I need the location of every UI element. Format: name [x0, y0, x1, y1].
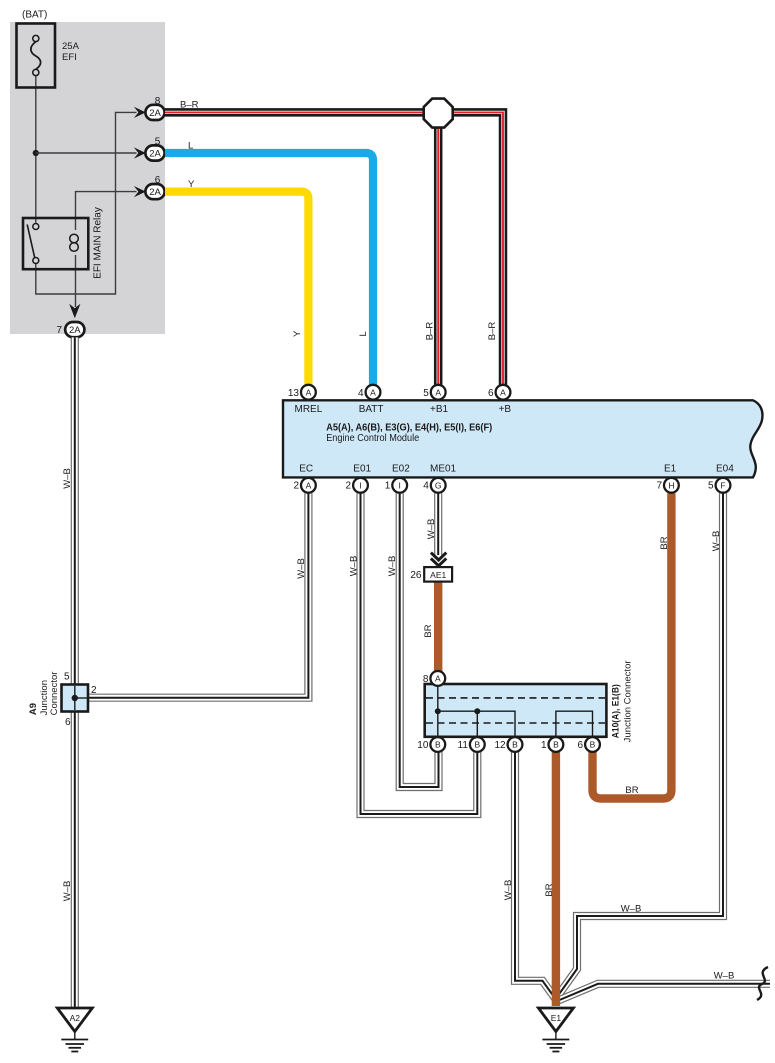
svg-text:BR: BR: [544, 883, 555, 896]
junction pin 11 B: [470, 737, 485, 752]
svg-text:B: B: [435, 740, 441, 750]
svg-text:A9: A9: [28, 703, 39, 715]
dashed internal lines: [426, 697, 605, 699]
svg-text:B–R: B–R: [425, 322, 436, 341]
svg-text:6: 6: [155, 175, 161, 186]
internal bus wiring: [437, 686, 439, 744]
ECM pin 5 A +B1: [431, 385, 446, 400]
svg-text:26: 26: [410, 570, 422, 581]
ECM pin 1 I E02: [392, 478, 407, 493]
svg-text:B: B: [512, 740, 518, 750]
svg-text:I: I: [399, 481, 401, 491]
arrow into pin 8: [134, 107, 146, 118]
fuse 25A EFI box: [17, 24, 56, 88]
svg-text:EC: EC: [299, 464, 313, 475]
svg-text:EFI MAIN Relay: EFI MAIN Relay: [93, 207, 104, 279]
svg-text:2A: 2A: [149, 187, 161, 198]
ECM pin 4 A BATT: [366, 385, 381, 400]
svg-text:L: L: [188, 140, 193, 151]
node dots in junction connector: [435, 708, 441, 714]
wire: to pin 5 (L): [36, 152, 137, 154]
svg-text:Connector: Connector: [49, 672, 60, 716]
svg-text:W–B: W–B: [503, 880, 514, 901]
svg-text:2: 2: [293, 480, 299, 491]
svg-text:BR: BR: [659, 536, 670, 549]
relay switch contacts: [33, 224, 39, 230]
wire BR brown junction pin1 to E1 ground: [552, 752, 560, 1006]
svg-text:F: F: [720, 481, 725, 491]
svg-text:5: 5: [64, 672, 70, 683]
junction pin 1 B: [549, 737, 564, 752]
svg-text:25A: 25A: [62, 41, 80, 52]
svg-text:Junction Connector: Junction Connector: [623, 660, 634, 742]
wire W-B from E02 to junction pin 10: [400, 493, 439, 787]
svg-text:6: 6: [578, 740, 584, 751]
junction connector A10(A), E1(B): [425, 684, 607, 737]
svg-text:W–B: W–B: [714, 971, 735, 982]
continuation break squiggle: [757, 967, 768, 1000]
svg-text:+B1: +B1: [430, 404, 449, 415]
svg-text:A: A: [435, 674, 441, 684]
svg-text:I: I: [359, 481, 361, 491]
svg-text:(BAT): (BAT): [22, 10, 47, 21]
svg-text:+B: +B: [499, 404, 512, 415]
connector 2A pin 7: [65, 322, 84, 337]
svg-text:MREL: MREL: [295, 404, 323, 415]
svg-text:12: 12: [494, 740, 506, 751]
svg-text:BR: BR: [625, 785, 638, 796]
svg-text:A10(A), E1(B): A10(A), E1(B): [611, 684, 621, 738]
svg-text:B: B: [553, 740, 559, 750]
svg-text:1: 1: [385, 480, 391, 491]
svg-text:2A: 2A: [149, 148, 161, 159]
svg-text:AE1: AE1: [430, 570, 446, 580]
svg-text:E1: E1: [551, 1013, 562, 1023]
arrow into pin 5: [134, 147, 146, 158]
ground A2: [57, 1008, 92, 1032]
svg-text:W–B: W–B: [296, 558, 307, 579]
svg-text:5: 5: [155, 137, 161, 148]
wire W-B from EC to A9 junction connector: [88, 493, 308, 698]
svg-text:11: 11: [458, 740, 469, 751]
wire: battery line from fuse to relay switch: [35, 76, 37, 223]
wire W-B from junction pin 12 to E1 ground: [515, 752, 556, 1000]
wire W-B short from ME01: [434, 493, 442, 555]
svg-text:BATT: BATT: [359, 404, 384, 415]
svg-text:2A: 2A: [149, 108, 161, 119]
ground E1: [538, 1008, 573, 1032]
ECM Engine Control Module box: [283, 400, 762, 477]
svg-text:A: A: [500, 387, 506, 397]
svg-text:W–B: W–B: [62, 468, 73, 489]
ECM pin 5 F E04: [716, 478, 731, 493]
svg-text:B–R: B–R: [180, 100, 199, 111]
svg-text:G: G: [435, 481, 442, 491]
svg-text:W–B: W–B: [426, 519, 437, 540]
junction pin 8 A: [430, 671, 445, 686]
svg-text:4: 4: [423, 480, 429, 491]
svg-text:W–B: W–B: [711, 531, 722, 552]
svg-text:A2: A2: [70, 1013, 81, 1023]
connector 2A pin 5: [145, 145, 164, 160]
relay switch arm: [27, 225, 34, 258]
svg-text:A: A: [435, 387, 441, 397]
relay coil: [70, 234, 79, 243]
relay EFI MAIN Relay box: [23, 218, 88, 269]
svg-text:W–B: W–B: [348, 556, 359, 577]
junction pin 6 B: [585, 737, 600, 752]
svg-text:Engine Control Module: Engine Control Module: [326, 433, 419, 444]
wire B-R pin8 to +B1/+B: [165, 112, 503, 385]
fuse element symbol: [31, 42, 41, 70]
ECM pin 2 A EC: [301, 478, 316, 493]
svg-text:E1: E1: [664, 464, 677, 475]
svg-text:2: 2: [346, 480, 352, 491]
svg-text:6: 6: [65, 717, 71, 728]
svg-text:7: 7: [56, 325, 62, 336]
svg-text:Y: Y: [188, 179, 195, 190]
wire W-B from relay pin7 down to ground A2: [71, 337, 79, 1007]
svg-text:8: 8: [155, 96, 161, 107]
wire W-B from right continuation to E1 ground: [556, 984, 770, 1002]
ECM pin 4 G ME01: [431, 478, 446, 493]
connector 2A pin 6: [145, 184, 164, 199]
svg-text:L: L: [358, 331, 369, 336]
junction pin 10 B: [430, 737, 445, 752]
junction pin 12 B: [508, 737, 523, 752]
svg-text:ME01: ME01: [430, 464, 457, 475]
node A9 dot: [72, 695, 78, 701]
svg-text:7: 7: [656, 480, 662, 491]
connector 2A pin 8: [145, 105, 164, 120]
svg-text:E01: E01: [353, 464, 371, 475]
node: octagon junction on B-R: [424, 99, 453, 128]
wire W-B from E01 to junction pin 11: [361, 493, 478, 814]
svg-text:5: 5: [708, 480, 714, 491]
svg-text:B–R: B–R: [487, 322, 498, 341]
wire L (blue) pin5 to BATT: [165, 153, 373, 385]
svg-text:2: 2: [91, 685, 97, 696]
svg-text:W–B: W–B: [62, 881, 73, 902]
svg-text:H: H: [668, 481, 674, 491]
wire BR brown AE1 to junction pin 8: [434, 581, 442, 672]
svg-text:5: 5: [423, 388, 429, 399]
junction connector A9: [62, 685, 89, 712]
ECM pin 13 A MREL: [301, 385, 316, 400]
svg-text:A: A: [370, 387, 376, 397]
svg-text:W–B: W–B: [621, 904, 642, 915]
svg-text:4: 4: [358, 388, 364, 399]
svg-text:8: 8: [423, 674, 429, 685]
svg-text:1: 1: [541, 740, 547, 751]
wire BR brown junction pin6 loop to ECM E1: [593, 493, 672, 798]
node: battery junction dot: [33, 150, 39, 156]
wire: coil bottom to pin 7: [75, 255, 77, 307]
svg-text:A: A: [306, 387, 312, 397]
svg-text:W–B: W–B: [387, 556, 398, 577]
svg-text:Y: Y: [292, 330, 303, 337]
arrow into pin 6: [134, 186, 146, 197]
svg-text:6: 6: [488, 388, 494, 399]
AE1 box: [424, 567, 452, 582]
wire Y (yellow) pin6 to MREL: [165, 192, 308, 385]
svg-text:BR: BR: [423, 624, 434, 637]
svg-text:EFI: EFI: [62, 52, 77, 63]
wire: coil top to pin 6 (Y): [76, 192, 137, 230]
svg-text:B: B: [590, 740, 596, 750]
arrow into pin 7: [69, 304, 80, 319]
grey relay panel background: [10, 22, 165, 334]
ECM pin 7 H E1: [664, 478, 679, 493]
svg-text:A5(A), A6(B), E3(G), E4(H), E5: A5(A), A6(B), E3(G), E4(H), E5(I), E6(F): [326, 422, 492, 433]
ECM pin 6 A +B: [496, 385, 511, 400]
wire W-B from E04 to E1 ground: [556, 493, 723, 998]
svg-text:10: 10: [417, 740, 429, 751]
svg-text:13: 13: [288, 388, 300, 399]
svg-text:E04: E04: [716, 464, 734, 475]
ECM pin 2 I E01: [353, 478, 368, 493]
svg-text:B: B: [474, 740, 480, 750]
svg-text:A: A: [306, 481, 312, 491]
wire: relay switch output to pin 8 (B-R): [36, 112, 137, 294]
svg-text:E02: E02: [392, 464, 410, 475]
svg-text:2A: 2A: [69, 325, 81, 336]
chevron arrows above AE1: [431, 553, 446, 566]
